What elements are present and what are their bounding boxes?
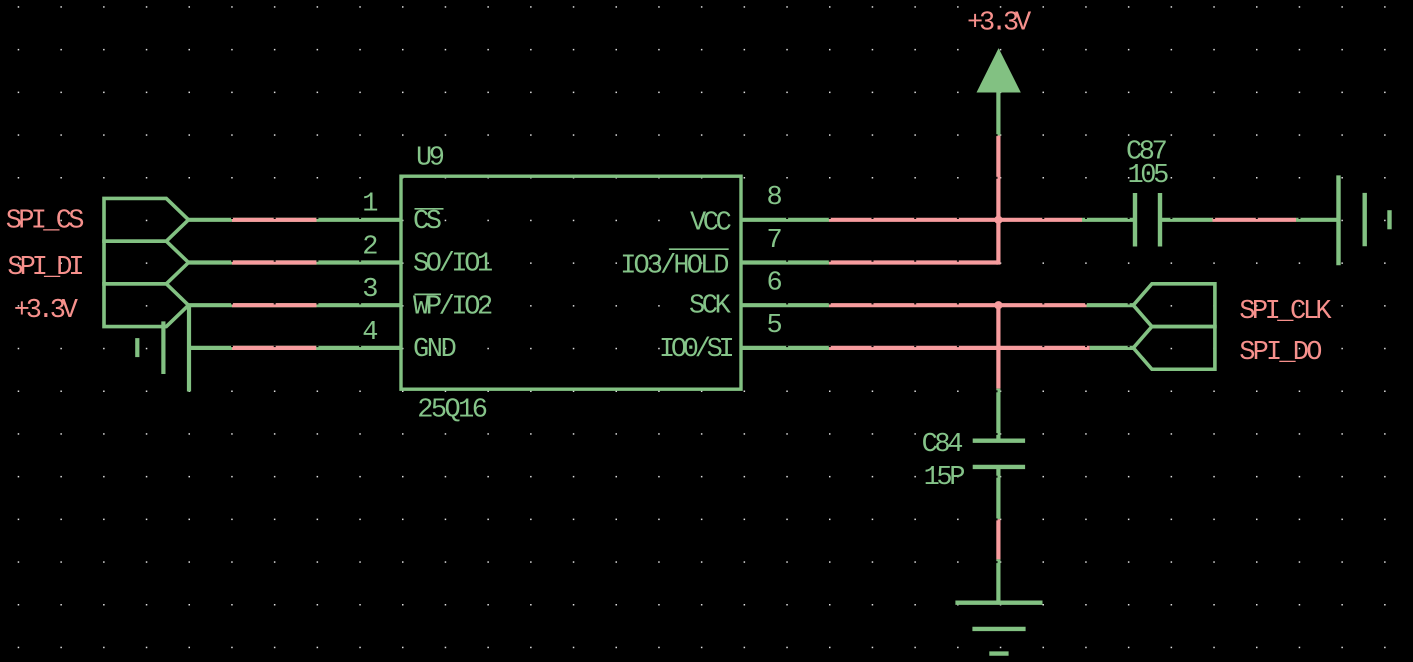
svg-text:6: 6	[767, 269, 782, 299]
svg-text:U9: U9	[416, 144, 444, 174]
svg-text:C84: C84	[922, 430, 963, 460]
svg-text:SPI_CLK: SPI_CLK	[1239, 297, 1332, 327]
junction at VCC row	[994, 216, 1002, 224]
svg-text:7: 7	[767, 226, 782, 256]
wire pin8 VCC to C87 and right ground	[741, 218, 1338, 222]
net flag SPI_DI	[104, 241, 189, 284]
svg-text:3: 3	[362, 275, 377, 305]
svg-text:SCK: SCK	[689, 292, 732, 322]
svg-text:1: 1	[362, 190, 377, 220]
svg-text:SO/IO1: SO/IO1	[413, 250, 492, 280]
overline HOLD	[669, 248, 729, 250]
svg-text:+3.3V: +3.3V	[967, 9, 1032, 39]
svg-text:CS: CS	[413, 207, 441, 237]
power symbol +3.3V (triangle)	[977, 48, 1021, 92]
net flag SPI_CS	[104, 198, 189, 241]
svg-text:SPI_CS: SPI_CS	[6, 207, 84, 237]
wire left ground to pin4 GND	[189, 346, 403, 350]
net flag SPI_DO	[1133, 327, 1215, 370]
chip U9 body	[401, 176, 741, 389]
net flag SPI_CLK	[1133, 284, 1215, 327]
grid notches over wires	[231, 134, 1301, 563]
svg-text:4: 4	[362, 318, 377, 348]
svg-text:VCC: VCC	[690, 209, 732, 239]
svg-text:2: 2	[362, 232, 377, 262]
svg-text:GND: GND	[413, 335, 456, 365]
wire SPI_DI to pin2	[189, 260, 402, 264]
vertical wire SCK junction down to C84	[996, 305, 1000, 439]
wire pin5 IO0/SI to SPI_DO flag	[741, 346, 1133, 350]
svg-text:8: 8	[767, 183, 782, 213]
wire SPI_CS to pin1 (green-pink-green)	[189, 218, 403, 222]
vertical wire C84 down to bottom ground	[996, 468, 1000, 603]
svg-text:25Q16: 25Q16	[417, 396, 486, 426]
svg-text:IO3/HOLD: IO3/HOLD	[620, 251, 728, 281]
svg-text:IO0/SI: IO0/SI	[659, 335, 733, 365]
right ground (earth, pointing right)	[1339, 175, 1390, 265]
junction at SCK row	[994, 301, 1002, 309]
svg-text:SPI_DI: SPI_DI	[7, 253, 82, 283]
bottom ground (earth)	[955, 603, 1042, 654]
capacitor C84 plates	[973, 441, 1025, 467]
svg-text:105: 105	[1128, 161, 1169, 191]
overline WP	[415, 293, 442, 295]
wire +3.3V flag to pin3	[189, 303, 403, 307]
wire pin7 IO3/HOLD elbow to +3.3V vertical	[741, 260, 998, 264]
svg-text:15P: 15P	[924, 463, 965, 493]
vertical wire +3.3V symbol stem down to pin7 elbow	[996, 93, 1000, 265]
svg-text:WP/IO2: WP/IO2	[413, 292, 492, 322]
overline CS	[415, 208, 444, 210]
net flag +3.3V (left)	[104, 284, 189, 327]
svg-text:5: 5	[767, 311, 782, 341]
svg-text:+3.3V: +3.3V	[14, 296, 79, 326]
left ground (earth, pointing left)	[137, 305, 189, 392]
wire pin6 SCK to SPI_CLK flag	[741, 303, 1133, 307]
capacitor C87 plates	[1135, 193, 1160, 247]
svg-text:SPI_DO: SPI_DO	[1239, 338, 1321, 368]
